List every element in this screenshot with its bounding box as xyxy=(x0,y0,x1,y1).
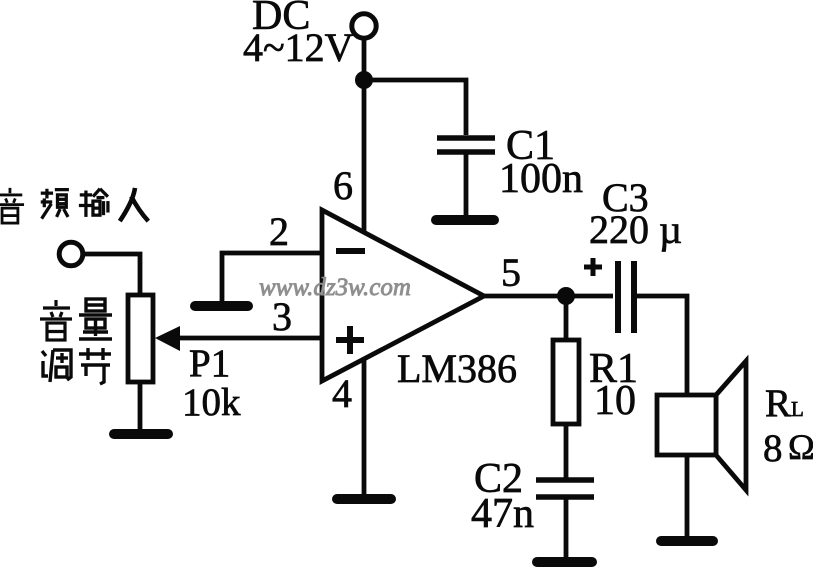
audio input terminal xyxy=(59,242,83,266)
pin label 6 xyxy=(333,163,353,208)
capacitor C1 xyxy=(437,138,495,152)
wire potentiometer to ground xyxy=(138,382,143,430)
potentiometer wiper arrow xyxy=(155,326,180,351)
wire output node to R1 xyxy=(564,296,569,340)
op-amp U1 LM386 xyxy=(322,210,484,381)
polarity plus C3 xyxy=(584,258,602,276)
label P1 10k xyxy=(182,342,241,424)
svg-text:220 µ: 220 µ xyxy=(589,207,682,252)
watermark www.dz3w.com xyxy=(259,274,411,301)
node output junction xyxy=(557,287,575,305)
ground speaker xyxy=(661,536,713,546)
wire pin 4 to ground xyxy=(362,359,367,494)
wire supply node to pin 6 xyxy=(362,80,367,233)
capacitor C2 xyxy=(536,480,594,497)
ground C1 xyxy=(436,215,494,225)
svg-text:10: 10 xyxy=(594,378,636,424)
svg-text:4~12V: 4~12V xyxy=(243,25,354,70)
入 xyxy=(120,188,149,221)
label R1 10 xyxy=(589,346,638,424)
ground potentiometer xyxy=(114,429,168,439)
wire C2 to ground xyxy=(564,499,569,558)
输 xyxy=(79,189,108,217)
speaker RL body xyxy=(657,361,746,490)
量 xyxy=(79,299,112,339)
ground C2 xyxy=(537,557,592,567)
wire speaker to ground xyxy=(685,455,690,538)
wire terminal to supply node xyxy=(362,38,367,80)
pin label 2 xyxy=(269,209,289,254)
wire pin 3 to wiper xyxy=(178,336,322,341)
resistor R1 body xyxy=(553,340,579,424)
svg-text:www.dz3w.com: www.dz3w.com xyxy=(259,274,411,301)
label volume adjust 音量 调节 xyxy=(40,299,112,384)
svg-text:5: 5 xyxy=(501,250,521,295)
wire pin 2 to ground xyxy=(222,253,322,302)
pin label 5 xyxy=(501,250,521,295)
wire C1 to ground xyxy=(464,154,469,217)
wire input terminal to potentiometer xyxy=(83,254,140,295)
wire pin 5 to output node xyxy=(484,294,613,299)
频 xyxy=(41,189,69,219)
svg-text:P1: P1 xyxy=(189,342,230,385)
svg-text:4: 4 xyxy=(332,371,352,416)
svg-text:6: 6 xyxy=(333,163,353,208)
label LM386 xyxy=(397,346,517,391)
label C3 220u xyxy=(589,175,682,252)
label C2 47n xyxy=(471,456,534,537)
label RL 8ohm xyxy=(763,382,813,470)
label audio input 音频输入 xyxy=(0,188,148,223)
ground pin 2 xyxy=(195,301,248,311)
ground pin 4 xyxy=(337,494,391,504)
wire supply node to C1 xyxy=(364,80,466,135)
pin label 3 xyxy=(272,294,292,339)
potentiometer P1 body xyxy=(128,295,153,382)
调 xyxy=(42,350,71,382)
wire R1 to C2 xyxy=(564,424,569,478)
node supply junction xyxy=(355,71,373,89)
svg-text:LM386: LM386 xyxy=(397,346,517,391)
wire C3 to speaker xyxy=(637,296,687,395)
svg-text:10k: 10k xyxy=(182,381,241,424)
节 xyxy=(79,348,111,384)
svg-text:2: 2 xyxy=(269,209,289,254)
svg-text:8: 8 xyxy=(763,427,783,470)
svg-text:100n: 100n xyxy=(499,156,583,202)
svg-text:47n: 47n xyxy=(471,491,534,537)
pin label 4 xyxy=(332,371,352,416)
svg-text:Ω: Ω xyxy=(788,427,813,467)
label DC 4~12V xyxy=(243,0,354,70)
capacitor C3 xyxy=(618,261,634,333)
label C1 100n xyxy=(499,123,583,202)
DC input terminal xyxy=(352,14,376,38)
